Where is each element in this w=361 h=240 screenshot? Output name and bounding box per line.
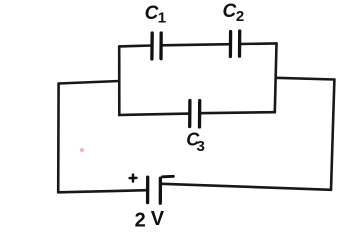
svg-text:C: C: [223, 1, 237, 22]
svg-text:3: 3: [197, 138, 205, 155]
battery plus polarity mark: [130, 175, 137, 182]
capacitor C2: [229, 32, 233, 57]
wire top edge middle segment: [161, 44, 231, 45]
wire inner-rect right edge: [275, 43, 277, 112]
svg-text:C: C: [145, 3, 159, 24]
wire inner-rect bottom edge left segment: [119, 114, 190, 115]
battery B1 negative plate: [159, 178, 162, 203]
wire left branch horizontal: [59, 81, 120, 84]
label C2: [223, 1, 245, 25]
svg-text:1: 1: [158, 10, 166, 27]
wire right branch horizontal: [276, 78, 335, 80]
capacitor C1: [150, 33, 154, 59]
wire inner-rect left edge: [118, 46, 121, 115]
label C1: [145, 3, 167, 26]
svg-text:V: V: [151, 208, 165, 230]
battery minus polarity mark: [162, 175, 173, 178]
svg-text:2: 2: [135, 210, 146, 232]
wire inner-rect bottom edge right segment: [200, 112, 275, 113]
capacitor C3: [188, 101, 191, 127]
wire right vertical: [331, 80, 334, 190]
label 2 V battery value: [135, 208, 165, 231]
wire bottom left: [58, 190, 147, 192]
svg-text:2: 2: [236, 8, 244, 25]
wire left vertical: [57, 84, 60, 193]
pink scan speck (decorative): [80, 148, 84, 152]
wire top edge left segment: [119, 44, 152, 48]
battery B1 positive plate: [146, 177, 149, 202]
wire top edge right segment: [240, 42, 277, 45]
wire bottom right: [162, 184, 332, 190]
label C3: [186, 130, 205, 155]
